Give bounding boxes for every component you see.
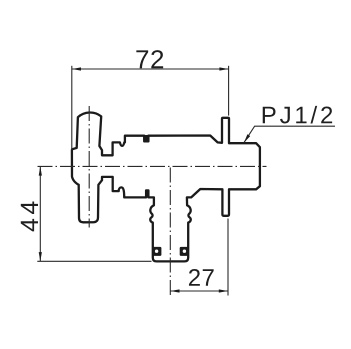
dimension 44: arrow down (39, 252, 42, 261)
handle vertical centerline (88, 106, 90, 228)
dimension 44: arrow up (39, 166, 42, 175)
leader arrowhead (244, 134, 250, 142)
dimension 44: dimension line (39, 166, 41, 261)
dimension 27: right extension line (227, 219, 229, 296)
drain boss left (152, 247, 161, 256)
dimension 27: arrow left (170, 289, 179, 292)
valve body and handle outline (72, 113, 260, 262)
dimension 72: extension line right (228, 66, 230, 116)
dimension 27: arrow right (219, 289, 228, 292)
svg-text:PJ1/2: PJ1/2 (261, 102, 336, 129)
stop pin top (143, 135, 149, 142)
body horizontal centerline (38, 165, 267, 167)
dimension 72: arrow left (72, 67, 81, 70)
svg-text:27: 27 (188, 265, 216, 292)
leader line PJ1/2 (244, 126, 335, 142)
stop pin bottom (145, 190, 149, 198)
dimension 72: dimension line (72, 68, 229, 70)
dimension 72: extension line left (71, 66, 73, 150)
drain boss right (180, 247, 189, 256)
dimension 72: arrow right (219, 67, 228, 70)
dimension 27: dimension line (170, 290, 228, 292)
dimension 44: bottom extension line (37, 260, 151, 262)
outlet vertical centerline (169, 168, 171, 296)
svg-text:72: 72 (135, 44, 165, 74)
svg-text:44: 44 (16, 197, 44, 232)
